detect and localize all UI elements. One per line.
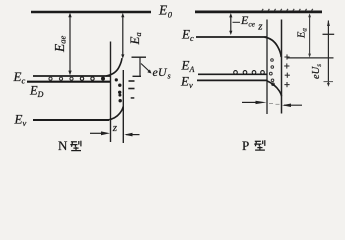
eUs measure line with ticks (P side) (323, 20, 335, 87)
glyph 型 (P side) (254, 140, 265, 150)
surface boundary line 2 (P side) (281, 20, 283, 114)
arrow Ece (vacuum to Ec bulk, P side) (229, 13, 232, 35)
plus signs (surface charge, P side) (284, 54, 290, 87)
svg-text:Ea: Ea (127, 32, 143, 45)
label Ece with leader (P side) (233, 13, 256, 29)
Ev band bending curve (N side) (107, 107, 123, 121)
surface boundary line 2 (N side) (122, 70, 124, 143)
acceptor level EA line (P side) (198, 73, 267, 75)
vacuum level E0 line (P side) (195, 11, 322, 14)
hole circles in surface region (P side) (269, 59, 274, 86)
svg-text:E0: E0 (158, 3, 173, 20)
svg-text:eUs: eUs (311, 64, 323, 79)
conduction band Ec line (N side) (33, 75, 111, 77)
label eUs (rotated, P side) (311, 64, 323, 79)
arrow Eae (vacuum to Ec bulk, N side) (68, 13, 71, 76)
svg-text:EA: EA (181, 58, 195, 75)
svg-text:Ea: Ea (297, 28, 309, 39)
depletion width arrows (P side) (242, 101, 302, 107)
svg-text:z: z (257, 20, 263, 32)
svg-text:Ece: Ece (240, 13, 256, 29)
svg-text:eUs: eUs (153, 65, 171, 81)
Ev band bending curve (P side) (267, 81, 282, 96)
svg-text:Ev: Ev (14, 112, 27, 129)
surface Ec level tick line (P side) (287, 57, 334, 59)
svg-text:N: N (58, 138, 68, 153)
svg-text:P: P (242, 138, 249, 153)
Ec band bending curve (N side) (106, 58, 122, 76)
donor level ED line (N side) (27, 81, 111, 83)
svg-text:Eae: Eae (52, 36, 68, 54)
svg-text:Ec: Ec (181, 27, 194, 44)
label Eae (rotated) (52, 36, 68, 54)
vacuum level E0 line (N side) (31, 11, 151, 14)
arrow Ea (vacuum to surface Ec level, P side) (308, 13, 311, 57)
minus signs (surface charge, N side) (128, 80, 134, 99)
eUs leader arrow (N side) (141, 64, 152, 74)
surface wall line (P side) (266, 20, 268, 115)
label Ea (rotated, N side) (127, 32, 143, 45)
hatching above E0 (P side) (262, 9, 313, 11)
valence band Ev line (N side) (33, 119, 109, 121)
depletion width z arrows (N side) (90, 131, 140, 136)
surface wall line (N side) (110, 42, 112, 143)
label Ea (rotated, P side) (297, 28, 309, 39)
glyph 型 (N side) (70, 141, 81, 151)
svg-text:Ev: Ev (180, 74, 193, 91)
acceptor circles on EA (234, 71, 265, 75)
Ec band bending curve (P side) (265, 37, 282, 57)
eUs measure line with ticks (N side) (132, 57, 147, 76)
svg-text:z: z (112, 122, 118, 134)
svg-text:Ec: Ec (13, 69, 26, 86)
arrow Ea (vacuum to surface Ec, N side) (121, 13, 124, 59)
conduction band Ec line (P side) (196, 36, 267, 38)
electron dots at surface (N side) (115, 78, 122, 102)
valence band Ev line (P side) (197, 79, 267, 81)
svg-text:ED: ED (29, 84, 44, 100)
donor circles on ED (49, 77, 105, 81)
